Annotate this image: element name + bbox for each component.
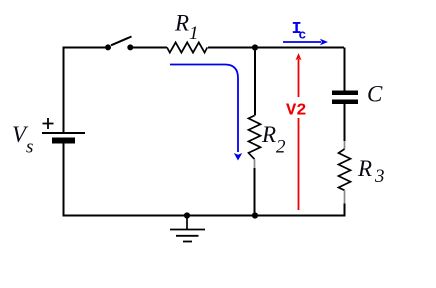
wire right rail to capacitor (344, 48, 346, 91)
node A junction dot (252, 44, 258, 50)
wire branch node A down to R2 (254, 48, 256, 116)
node B junction dot (252, 212, 258, 218)
switch right contact dot (127, 44, 133, 50)
svg-text:2: 2 (276, 137, 286, 158)
ground (170, 216, 205, 242)
ground junction dot (184, 212, 190, 218)
switch S blade (111, 37, 132, 46)
capacitor C top plate (332, 91, 358, 96)
wire capacitor to R3 (344, 104, 346, 141)
voltage source Vs top plate (42, 132, 85, 134)
resistor R3 top lead (344, 141, 346, 149)
wire R2 to node B (254, 168, 256, 216)
svg-text:c: c (299, 28, 307, 43)
resistor R1 zigzag (167, 42, 207, 52)
capacitor C bottom plate (332, 100, 358, 105)
current direction arrow (blue curve) (170, 65, 242, 161)
current arrow Ic (blue) (283, 39, 328, 46)
wire top-left segment (64, 48, 106, 134)
svg-text:C: C (367, 82, 383, 107)
svg-text:R: R (261, 122, 276, 147)
voltage source Vs bottom plate (52, 138, 75, 144)
wire switch to R1 (133, 47, 167, 49)
svg-text:V2: V2 (286, 102, 306, 121)
svg-text:R: R (357, 156, 372, 181)
switch left contact dot (105, 44, 111, 50)
svg-text:1: 1 (189, 23, 199, 44)
resistor R3 zigzag (339, 149, 351, 190)
svg-text:3: 3 (374, 166, 385, 187)
label Ic (292, 20, 307, 43)
wire R1 to node A (208, 47, 344, 49)
svg-text:R: R (174, 11, 189, 36)
resistor R2 zigzag (249, 116, 261, 160)
wire bottom (64, 144, 254, 216)
wire R3 to bottom-right corner (257, 204, 345, 216)
voltage arrow V2 (red) (296, 53, 302, 210)
resistor R3 bottom lead (344, 190, 346, 203)
resistor R2 bottom lead (254, 159, 256, 168)
plus sign (43, 118, 54, 129)
svg-text:s: s (26, 137, 33, 158)
